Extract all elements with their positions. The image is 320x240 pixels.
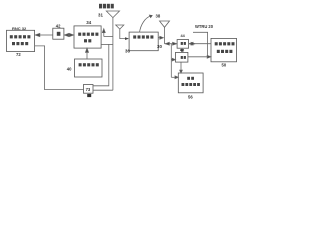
text blobs box44	[181, 42, 186, 45]
text blobs channel box36	[133, 35, 153, 38]
svg-text:WTRU 20: WTRU 20	[195, 24, 214, 29]
wire branch down to 46 and 56	[171, 44, 178, 79]
antenna 31	[106, 11, 119, 90]
text blob box42	[57, 32, 61, 36]
box 46	[176, 52, 188, 62]
blob under box73	[87, 94, 91, 97]
RNC box 32	[7, 30, 35, 51]
text blobs box50	[215, 42, 235, 53]
wire 46 down to 56	[180, 62, 183, 73]
text blobs box34	[78, 33, 98, 43]
svg-text:73: 73	[86, 87, 91, 92]
measurement box 40	[75, 59, 103, 77]
box 44	[177, 40, 189, 49]
transceiver box 34	[74, 26, 101, 48]
svg-text:31: 31	[98, 12, 103, 17]
svg-text:56: 56	[188, 94, 193, 99]
box 42	[53, 28, 64, 39]
wire antenna30 to 44 double arrow	[165, 42, 178, 45]
RRM box 50	[211, 38, 237, 61]
wire 46 to 50	[188, 55, 211, 58]
wire channel right to antenna 30	[158, 36, 163, 39]
wire 34 right to drop line	[93, 44, 113, 90]
svg-text:34: 34	[86, 20, 91, 25]
interference canceller box 56	[178, 73, 203, 93]
svg-text:42: 42	[56, 23, 61, 28]
svg-text:50: 50	[222, 63, 227, 68]
channel right antenna 30	[160, 21, 170, 44]
text blobs box46	[181, 56, 186, 59]
svg-text:46: 46	[180, 48, 184, 52]
svg-text:30: 30	[157, 44, 162, 49]
wire WTRU label leader down to 50	[193, 32, 208, 57]
radio channel box 36	[129, 32, 158, 51]
svg-text:RNC 32: RNC 32	[12, 26, 27, 31]
arrow into channel box left	[125, 37, 129, 40]
svg-text:38: 38	[156, 13, 161, 18]
wire 42 to 34 double arrow	[64, 34, 74, 37]
wire RNC arrow from 42	[35, 33, 53, 36]
interference arc 38	[140, 15, 153, 33]
text blobs box56	[182, 77, 200, 86]
wire 40 up to 34	[86, 48, 89, 59]
svg-text:72: 72	[16, 52, 21, 57]
base station caption blobs	[99, 4, 114, 9]
wire 44 down to 46	[181, 48, 184, 52]
svg-text:44: 44	[181, 34, 186, 38]
wire RNC to 73 long path	[35, 46, 84, 90]
text blobs RNC box	[10, 35, 31, 45]
wire stub up arrow near antenna 31	[102, 29, 113, 37]
svg-text:36: 36	[125, 49, 130, 54]
channel left antenna	[116, 25, 128, 39]
svg-text:40: 40	[67, 66, 72, 71]
small box 73	[84, 85, 94, 94]
text blobs box40	[79, 63, 99, 66]
wire 44 to 50 double arrow	[189, 42, 211, 45]
